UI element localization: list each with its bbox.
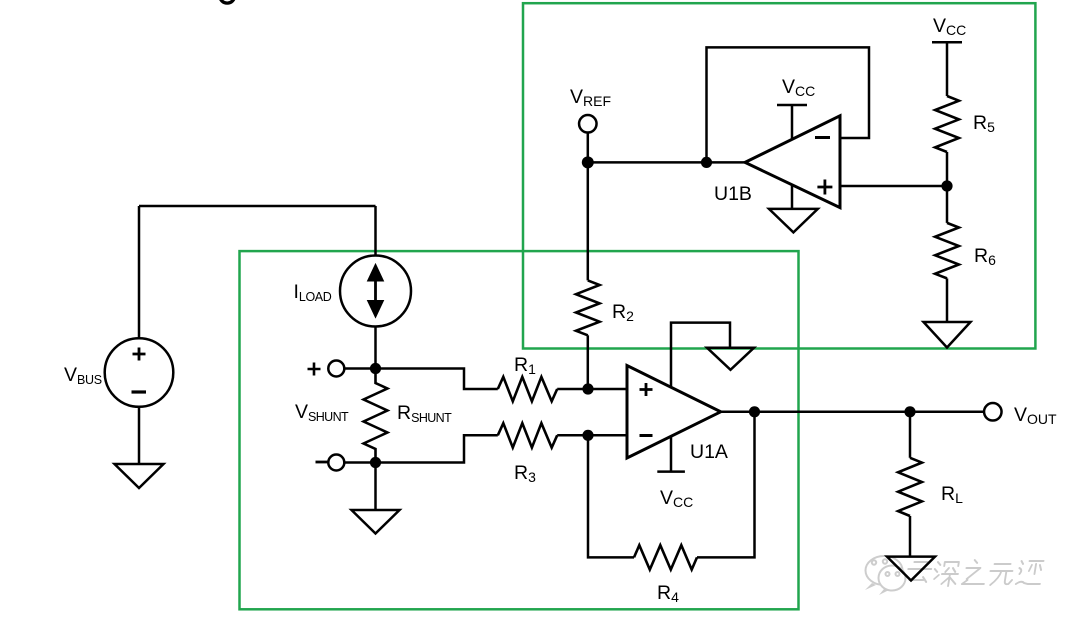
svg-text:R1: R1 <box>514 354 536 377</box>
voltage source V_BUS <box>105 338 174 407</box>
resistor R4 <box>634 545 697 569</box>
svg-text:R2: R2 <box>612 301 634 324</box>
wire shunt to ground <box>374 463 377 511</box>
wire V_BUS top horizontal <box>139 205 376 208</box>
wire V_BUS to ground <box>138 407 141 464</box>
node inverting U1A <box>582 430 593 441</box>
wire R2 to R1 node <box>587 335 590 389</box>
svg-text:U1B: U1B <box>714 183 752 205</box>
node plus shunt <box>370 363 381 374</box>
terminal - of shunt <box>328 455 344 471</box>
resistor R1 <box>498 377 557 401</box>
wire to U1A + input <box>588 388 627 391</box>
svg-text:R4: R4 <box>657 582 679 605</box>
resistor R5 <box>935 96 959 152</box>
ground below shunt <box>352 510 400 534</box>
resistor R_L <box>898 458 922 516</box>
terminal V_REF <box>579 115 597 133</box>
green annotation box center <box>240 251 799 609</box>
output wire to V_OUT <box>721 411 984 414</box>
svg-text:RL: RL <box>941 483 963 506</box>
svg-text:VOUT: VOUT <box>1014 404 1057 427</box>
wire node to R6 <box>946 186 949 223</box>
ground below R_L <box>887 557 935 581</box>
ground below U1B <box>769 209 818 233</box>
op-amp U1B <box>745 116 840 208</box>
green annotation box top-right <box>523 3 1035 348</box>
wire V_REF node down to R2 <box>587 162 590 280</box>
terminal V_OUT <box>984 403 1002 421</box>
watermark text 云深之无迹 <box>906 560 1043 586</box>
svg-text:VREF: VREF <box>570 86 611 109</box>
cropped title letter g fragment <box>220 0 235 3</box>
current source I_LOAD <box>340 256 411 327</box>
svg-text:VBUS: VBUS <box>64 364 102 387</box>
ground below R6 <box>924 322 971 348</box>
watermark logo bubbles <box>865 556 906 595</box>
ground below V_BUS <box>115 464 164 488</box>
node noninverting U1A <box>582 383 593 394</box>
svg-text:VCC: VCC <box>660 487 693 510</box>
node minus shunt <box>370 457 381 468</box>
svg-text:U1A: U1A <box>690 441 728 463</box>
junction feedback output <box>701 157 712 168</box>
wire R5 to node <box>946 152 949 186</box>
svg-text:VCC: VCC <box>933 15 966 38</box>
U1B feedback loop <box>707 47 870 162</box>
ground above U1A <box>707 348 754 370</box>
U1B ground pin <box>791 184 794 209</box>
resistor R3 <box>498 423 557 447</box>
wire V_REF to U1B output <box>588 161 745 164</box>
wire to I_LOAD top <box>374 206 377 256</box>
wire R4 to output <box>697 412 755 558</box>
wire U1B + input to divider <box>840 185 947 188</box>
op-amp U1A <box>627 366 721 459</box>
wire R1 to node <box>557 388 588 391</box>
wire R3 to node <box>557 434 588 437</box>
wire I_LOAD to plus node <box>374 327 377 369</box>
svg-text:R3: R3 <box>514 462 536 485</box>
svg-text:VCC: VCC <box>782 76 815 99</box>
wire R6 to ground <box>946 278 949 322</box>
resistor R_SHUNT <box>364 369 388 463</box>
resistor R6 <box>935 223 959 279</box>
svg-text:RSHUNT: RSHUNT <box>397 402 452 425</box>
node divider <box>941 180 952 191</box>
wire V_BUS vertical up <box>138 206 141 339</box>
terminal + of shunt <box>328 361 344 377</box>
svg-text:ILOAD: ILOAD <box>294 281 332 304</box>
resistor R2 <box>576 280 600 335</box>
V_CC bar top right <box>932 42 962 96</box>
wire plus node to R1 <box>376 369 498 390</box>
wire feedback down to R4 <box>588 435 634 557</box>
junction output <box>749 406 760 417</box>
wire output to R_L <box>909 412 912 458</box>
wire minus node to R3 <box>376 435 498 462</box>
svg-text:VSHUNT: VSHUNT <box>295 401 349 424</box>
U1B V_CC pin <box>777 105 807 140</box>
wire R_L to ground <box>909 516 912 557</box>
svg-text:R6: R6 <box>974 245 996 268</box>
wire to U1A - input <box>588 434 627 437</box>
svg-text:R5: R5 <box>973 112 995 135</box>
node V_REF <box>582 156 594 168</box>
junction R_L <box>904 406 915 417</box>
U1A bottom pin V_CC <box>657 436 685 471</box>
U1A top pin to ground <box>671 323 730 387</box>
